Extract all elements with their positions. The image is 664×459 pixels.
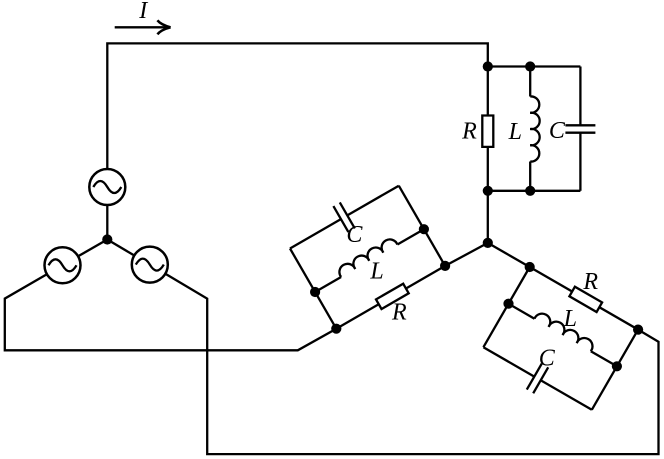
AC source V3 (right phase) [132,247,168,283]
wire: central node to middle load [445,243,488,266]
inductor L (middle load) [315,229,424,292]
svg-text:L: L [369,259,383,285]
inductor L (top load) [530,67,539,191]
wire: star node to source V3 [107,240,133,256]
current arrow I [115,20,171,34]
capacitor C (top load) [565,67,595,191]
wire: V1 to star node [106,206,108,240]
svg-text:R: R [582,269,598,295]
inductor L (right-side load) [509,304,617,367]
wire: star node to source V2 [79,240,107,256]
wire: V3 down-right, long bottom loop to right-side load entry [166,274,658,454]
svg-text:C: C [346,222,363,248]
resistor R (middle load) [336,266,445,329]
wire: rail (far) of middle RLC load [399,186,445,266]
resistor R (top load) [482,67,493,191]
junction dots (middle load) [310,224,450,334]
svg-text:C: C [549,118,566,144]
svg-text:C: C [539,346,556,372]
central node [483,238,493,248]
wire: V2 down-left, down, across bottom-left to middle load entry [5,275,337,351]
AC source V2 (left phase) [45,247,81,283]
capacitor C (right-side load) [483,347,591,410]
AC source V1 (top phase) [89,169,125,205]
capacitor C (middle load) [290,186,399,249]
wire: rail (top) of first RLC load [488,65,581,67]
svg-text:R: R [391,299,407,325]
wire: rail (bottom) of first RLC load [488,190,581,192]
wire: top load to central node [487,191,489,243]
resistor R (right-side load) [530,267,638,330]
svg-text:L: L [563,306,577,332]
junction dots (top load) [483,61,536,196]
wire: rail (far) of right-side RLC load [592,330,638,410]
svg-text:I: I [138,0,148,24]
svg-text:L: L [508,119,522,145]
wire: top rail from source V1 up and across to top load [107,43,488,168]
wire: rail (near) of right-side RLC load [483,267,529,347]
junction dots (right-side load) [503,262,643,372]
wire: rail (near) of middle RLC load [290,249,336,329]
svg-text:R: R [461,118,477,144]
star node [102,234,112,244]
wire: central node to right-side load [488,243,530,267]
